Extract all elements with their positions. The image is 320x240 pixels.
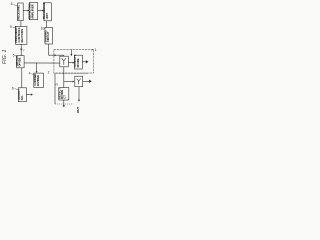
- arrow from block 8 to top middle block: [23, 10, 29, 12]
- wire with arrow from antenna box 2 down to output label: [78, 87, 80, 102]
- svg-text:DIVIDER: DIVIDER: [36, 75, 40, 86]
- svg-text:6: 6: [12, 87, 14, 91]
- svg-text:SIG: SIG: [20, 96, 24, 101]
- wire block 5 right across to mixer box: [24, 62, 60, 64]
- block 5 (oscillator box): [15, 55, 24, 68]
- reference numeral 10 with leader tick: [41, 26, 45, 30]
- svg-text:DIVIDE: DIVIDE: [18, 57, 22, 66]
- mixer box with antenna-style symbol: [60, 56, 69, 67]
- svg-text:CIRCUIT: CIRCUIT: [46, 31, 50, 42]
- block (top right box of upper rows): [42, 2, 51, 21]
- block 10 (second row right box): [44, 28, 53, 45]
- svg-text:FIG. 1: FIG. 1: [2, 49, 8, 64]
- enclosure 2 bottom edge (dashed): [55, 103, 73, 105]
- svg-text:9: 9: [10, 25, 12, 29]
- svg-text:8: 8: [11, 2, 13, 6]
- wire from block 10 down and right into mixer box, with arrow: [49, 44, 64, 56]
- wire with arrow from block 9 down to block 5: [20, 44, 22, 55]
- svg-text:DIVIDE: DIVIDE: [76, 58, 80, 67]
- reference numeral 4 with leader tick: [29, 71, 34, 75]
- svg-text:AMPLIFIER: AMPLIFIER: [31, 4, 35, 19]
- output arrow right from block 6: [26, 94, 33, 96]
- block 4: [33, 73, 43, 87]
- big output arrow right from amplifier box: [82, 60, 88, 63]
- arrow from top middle block to top right block: [38, 10, 45, 12]
- svg-text:5: 5: [13, 54, 15, 58]
- arrow mixer to amplifier box: [68, 62, 74, 64]
- output arrow down from detector box: [63, 100, 65, 107]
- reference numeral 3 with leader tick: [55, 83, 58, 87]
- input arrow stub through enclosure 1 top: [70, 50, 72, 57]
- block 8 (top-left box, rotated caption): [16, 3, 23, 21]
- block 6: [17, 88, 26, 102]
- wire block 5 bottom down to block 6: [21, 68, 23, 88]
- wire top right block down to block 10: [45, 21, 47, 28]
- svg-text:OUT: OUT: [76, 107, 80, 114]
- big output arrow right from antenna box 2: [83, 80, 92, 83]
- block 9 (second row left box): [14, 26, 27, 45]
- wire block 8 down to block 9: [20, 21, 22, 27]
- reference numeral 5 with leader tick: [13, 54, 17, 58]
- block (top middle box, two rotated caption lines): [28, 3, 38, 20]
- detector box: [57, 88, 69, 100]
- reference numeral 8 with leader tick: [11, 2, 18, 6]
- antenna box 2 (with antenna-style symbol): [75, 76, 83, 87]
- svg-text:1: 1: [95, 48, 97, 52]
- svg-text:2: 2: [48, 70, 50, 74]
- svg-text:CT: CT: [62, 95, 66, 99]
- reference numeral 1 with leader tick: [91, 48, 97, 52]
- reference numeral 9 with leader tick: [10, 25, 16, 29]
- amplifier box (right of mixer): [73, 54, 82, 69]
- svg-text:RECEIVING: RECEIVING: [16, 5, 20, 20]
- branch wire with arrow down into block 4: [36, 63, 38, 73]
- enclosure 2 left edge: [54, 74, 56, 104]
- svg-text:4: 4: [29, 71, 31, 75]
- wire mixer bottom down to detector box: [63, 67, 65, 88]
- reference numeral 6 with leader tick: [12, 87, 18, 91]
- svg-text:UNIT: UNIT: [45, 13, 49, 20]
- enclosure 2 top edge (dashed): [54, 73, 88, 75]
- branch wire with arrow right into antenna box 2: [64, 81, 75, 83]
- dash-dot enclosure 1 (upper unit boundary): [54, 49, 94, 73]
- svg-text:SECTIONS: SECTIONS: [20, 29, 24, 43]
